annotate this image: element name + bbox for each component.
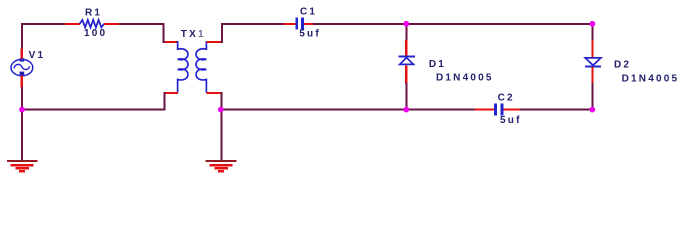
diode D2 (cathode down) bbox=[585, 58, 601, 68]
wire D1 branch lower bbox=[405, 83, 407, 110]
svg-text:C2: C2 bbox=[498, 92, 515, 103]
wire D2 branch upper bbox=[591, 23, 593, 41]
svg-text:100: 100 bbox=[84, 28, 107, 39]
pin D1 cathode red stub bbox=[405, 40, 407, 56]
V1 sine symbol bbox=[14, 64, 29, 69]
svg-text:5uf: 5uf bbox=[299, 28, 321, 39]
svg-text:5uf: 5uf bbox=[500, 115, 522, 126]
svg-text:D1: D1 bbox=[429, 59, 446, 70]
ground GND middle bbox=[206, 160, 237, 172]
wire R1 to TX1 corner bbox=[119, 24, 166, 42]
svg-text:D1N4005: D1N4005 bbox=[622, 74, 680, 85]
pin D1 anode red stub bbox=[405, 65, 407, 84]
diode D1 (cathode up) bbox=[398, 55, 415, 64]
wire TX1 secondary top corner to top rail bbox=[221, 24, 285, 42]
left vertical wire V1 branch top bbox=[21, 23, 23, 49]
capacitor C1 bbox=[295, 18, 304, 30]
pin C2 right red stub bbox=[503, 109, 520, 111]
wire TX1 secondary bottom corner to node at middle ground bbox=[220, 93, 223, 110]
svg-text:V1: V1 bbox=[29, 50, 46, 61]
resistor R1 bbox=[80, 20, 104, 28]
pin TX1 secondary bottom red stub bbox=[206, 92, 220, 94]
pin R1 left red stub bbox=[65, 23, 80, 25]
svg-text:C1: C1 bbox=[300, 7, 317, 18]
pin V1 minus red stub bbox=[21, 76, 23, 88]
node junction dot D2 bottom bbox=[589, 107, 595, 113]
voltage source V1 body bbox=[11, 59, 33, 75]
svg-text:D1N4005: D1N4005 bbox=[436, 73, 494, 84]
pin V1 plus red stub bbox=[21, 49, 23, 61]
wire TX1 primary bottom to bottom rail bbox=[21, 93, 166, 110]
pin TX1 primary top red stub bbox=[165, 41, 178, 43]
pin TX1 primary bottom red stub bbox=[165, 92, 178, 94]
pin R1 right red stub bbox=[104, 23, 120, 25]
wire left ground drop bbox=[21, 110, 23, 161]
V1 top terminal pad bbox=[20, 58, 25, 61]
capacitor C2 bbox=[494, 104, 503, 116]
pin C1 left red stub bbox=[284, 23, 296, 25]
wire D1 branch upper bbox=[405, 24, 407, 41]
V1 bottom terminal pad bbox=[20, 72, 25, 76]
wire top rail left segment (V1 corner to R1) bbox=[21, 23, 66, 25]
svg-text:TX1: TX1 bbox=[181, 29, 206, 40]
transformer TX1 secondary winding L2 bbox=[196, 41, 206, 93]
pin C1 right red stub bbox=[304, 23, 314, 25]
ground GND left bbox=[7, 160, 38, 172]
node junction dot D1 top bbox=[403, 21, 409, 27]
svg-text:R1: R1 bbox=[85, 8, 102, 19]
wire middle ground drop bbox=[220, 110, 222, 161]
node junction dot middle (TX1 secondary/ground/rail) bbox=[218, 107, 224, 113]
svg-text:D2: D2 bbox=[614, 60, 631, 71]
wire bottom rail C2 to D2 corner bbox=[520, 109, 594, 111]
node junction dot D1 bottom bbox=[403, 107, 409, 113]
wire D2 branch lower bbox=[591, 83, 593, 111]
pin D2 anode red stub bbox=[591, 40, 593, 58]
pin C2 left red stub bbox=[475, 109, 494, 111]
pin D2 cathode red stub bbox=[591, 67, 593, 84]
wire top rail C1 to D2 corner bbox=[313, 23, 593, 25]
wire bottom rail node to C2 bbox=[221, 109, 476, 111]
node junction dot D2 top bbox=[590, 21, 596, 27]
node junction dot left (V1/ground/rail) bbox=[19, 107, 25, 113]
left vertical wire V1 bottom to node bbox=[21, 87, 23, 110]
transformer TX1 primary winding L1 bbox=[178, 41, 188, 93]
pin TX1 secondary top red stub bbox=[206, 41, 221, 43]
